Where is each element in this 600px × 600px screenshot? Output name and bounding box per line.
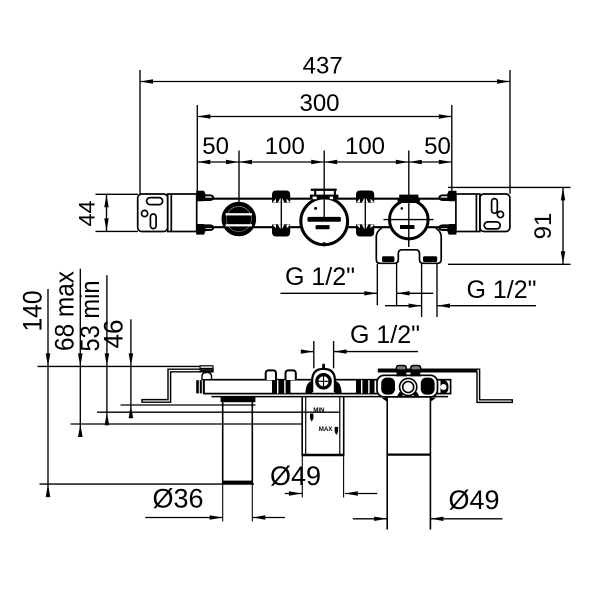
- center valve ring: [317, 375, 330, 388]
- left end stem cap: [200, 366, 213, 369]
- reference line 53 depth: [97, 411, 340, 413]
- valve 2 inner bar: [308, 217, 341, 222]
- Ø36 pipe end band: [223, 481, 253, 485]
- reference line 140 depth: [40, 483, 255, 485]
- left wall hook top: [196, 191, 206, 202]
- wall reference line: [38, 365, 208, 367]
- left bracket hole: [142, 210, 148, 216]
- svg-text:Ø49: Ø49: [448, 485, 499, 515]
- left bracket slot horizontal: [147, 198, 163, 205]
- right bracket body section: [456, 194, 480, 232]
- outlet body below valve 3: [376, 228, 441, 263]
- outlet extension lines: [376, 264, 378, 306]
- Ø36 pipe shoulder: [221, 397, 256, 402]
- dim 140 line: [47, 289, 49, 497]
- right bracket wing overlay: [378, 369, 477, 372]
- right end fitting: [441, 380, 449, 395]
- valve 2 dot: [314, 207, 317, 210]
- right valve body: [377, 375, 438, 397]
- Ø36 pipe: [222, 402, 224, 484]
- dim 437 line: [140, 81, 510, 83]
- svg-text:G 1/2": G 1/2": [285, 263, 355, 291]
- left bracket slot vertical: [150, 214, 156, 229]
- dim 91 extension bottom: [448, 263, 571, 265]
- valve 3 top cap: [398, 198, 421, 203]
- svg-text:50: 50: [202, 133, 229, 160]
- coupler 1 bottom nut: [272, 224, 290, 236]
- dim Ø49 right line: [353, 518, 387, 520]
- G 1/2 center dim line: [303, 351, 314, 353]
- outlet port right: [423, 256, 437, 262]
- valve 2 bottom tick: [323, 242, 326, 246]
- left mounting bracket (Z profile): [142, 369, 213, 402]
- svg-text:Ø49: Ø49: [270, 461, 321, 491]
- coupler 1 center line: [280, 191, 282, 237]
- dim 91 extension top: [448, 186, 571, 188]
- right valve tab stems: [396, 372, 407, 377]
- svg-text:50: 50: [424, 133, 451, 160]
- left end stem flange: [200, 370, 214, 372]
- dim 68 max line: [79, 269, 81, 437]
- center valve right skirt: [335, 381, 342, 394]
- dim 44 arrows: [106, 194, 108, 231]
- valve 2 ring: [301, 198, 348, 245]
- right wall hook top: [447, 191, 457, 202]
- dim 437 extension left: [139, 70, 141, 194]
- dim 300 extension left: [196, 105, 198, 194]
- rail tube bottom edge: [197, 226, 456, 228]
- right bracket slot vertical: [492, 199, 498, 214]
- right bracket hole: [497, 211, 503, 217]
- coupler 2 top nut: [356, 191, 374, 203]
- extension line to valve 1: [238, 151, 240, 204]
- extension line to valve 3: [408, 151, 410, 248]
- svg-text:G 1/2": G 1/2": [350, 321, 420, 349]
- G 1/2 right outlet dim line: [385, 305, 422, 307]
- right wall hook bottom: [447, 224, 457, 235]
- dim 300 line: [197, 116, 451, 118]
- right pipe joint line: [387, 454, 430, 456]
- svg-text:300: 300: [299, 90, 339, 117]
- dim row 50-100-100-50 line: [197, 161, 451, 163]
- svg-text:100: 100: [345, 133, 385, 160]
- svg-text:100: 100: [265, 133, 305, 160]
- left bracket double line: [170, 194, 172, 232]
- dim Ø49 center line: [285, 493, 302, 495]
- valve 2 top cap: [311, 189, 337, 191]
- rail bottom lip: [212, 396, 449, 398]
- svg-text:MIN: MIN: [313, 407, 325, 414]
- left bracket plate: [138, 194, 168, 232]
- right bracket double line: [475, 194, 477, 232]
- coupler 1 top nut: [272, 191, 290, 203]
- valve 3 inner rect: [400, 225, 415, 229]
- reference line 68 depth: [71, 423, 303, 425]
- center valve stem tip: [322, 364, 325, 370]
- left end stem dome: [202, 372, 212, 379]
- right mounting bracket (Z profile): [379, 369, 513, 402]
- dim Ø36 line: [145, 517, 222, 519]
- center cartridge outer tube: [301, 397, 303, 455]
- svg-text:Ø36: Ø36: [152, 484, 203, 514]
- left end block: [196, 380, 204, 393]
- dim 44 extension top: [96, 193, 139, 195]
- svg-text:437: 437: [303, 53, 343, 80]
- valve 2 lower bar: [316, 225, 330, 229]
- reference line 46 depth: [121, 404, 256, 406]
- dim 46 line: [130, 319, 132, 418]
- valve 3 crosshair horizontal: [384, 219, 434, 221]
- coupler tabs bottom view: [266, 370, 276, 380]
- right valve port circle inner: [403, 382, 414, 393]
- svg-text:91: 91: [530, 213, 557, 240]
- valve 1 ring: [224, 204, 254, 234]
- right pipe: [386, 398, 388, 530]
- outlet port left: [382, 256, 394, 262]
- center cartridge inner tube: [305, 397, 307, 455]
- coupler 2 block bottom view: [356, 380, 375, 393]
- main rail bar: [204, 380, 451, 394]
- G 1/2 left outlet dim line: [281, 292, 378, 294]
- dim 300 extension right: [451, 105, 453, 191]
- center valve dome: [312, 369, 335, 392]
- right valve left lobe: [381, 378, 395, 395]
- svg-text:MAX: MAX: [319, 426, 334, 433]
- valve 3 center line: [408, 200, 410, 247]
- dim 44 extension bottom: [96, 230, 139, 232]
- extension line to valve 2: [323, 151, 325, 222]
- left bracket body section: [168, 194, 197, 232]
- right valve tab right: [411, 366, 421, 373]
- valve 3 ring: [390, 200, 429, 239]
- svg-text:46: 46: [99, 320, 129, 349]
- right valve port circle outer: [400, 378, 417, 395]
- right valve tab left: [396, 366, 406, 373]
- dim 437 extension right: [509, 70, 511, 194]
- center valve crosshair: [316, 380, 332, 382]
- dim 91 line: [562, 187, 564, 264]
- svg-text:140: 140: [18, 291, 48, 332]
- right bracket plate: [480, 194, 510, 232]
- left wall hook bottom: [196, 224, 206, 235]
- coupler 2 center line: [364, 191, 366, 237]
- valve 2 center line: [323, 198, 325, 222]
- rail tube top edge: [197, 198, 456, 200]
- dim 53 min line: [106, 275, 108, 425]
- coupler 2 bottom nut: [356, 224, 374, 236]
- svg-text:44: 44: [75, 201, 100, 227]
- valve 2 top cap white notches: [313, 197, 317, 200]
- valve 3 dot: [401, 207, 404, 210]
- coupler block bottom view: [272, 380, 291, 393]
- right valve right lobe: [421, 378, 435, 395]
- valve 1 screw slot: [226, 207, 251, 232]
- svg-text:G 1/2": G 1/2": [466, 276, 536, 304]
- right bracket slot horizontal: [484, 222, 500, 229]
- right pipe chamfers: [382, 398, 388, 402]
- G 1/2 center extension lines: [313, 341, 315, 368]
- center valve left skirt: [305, 381, 312, 394]
